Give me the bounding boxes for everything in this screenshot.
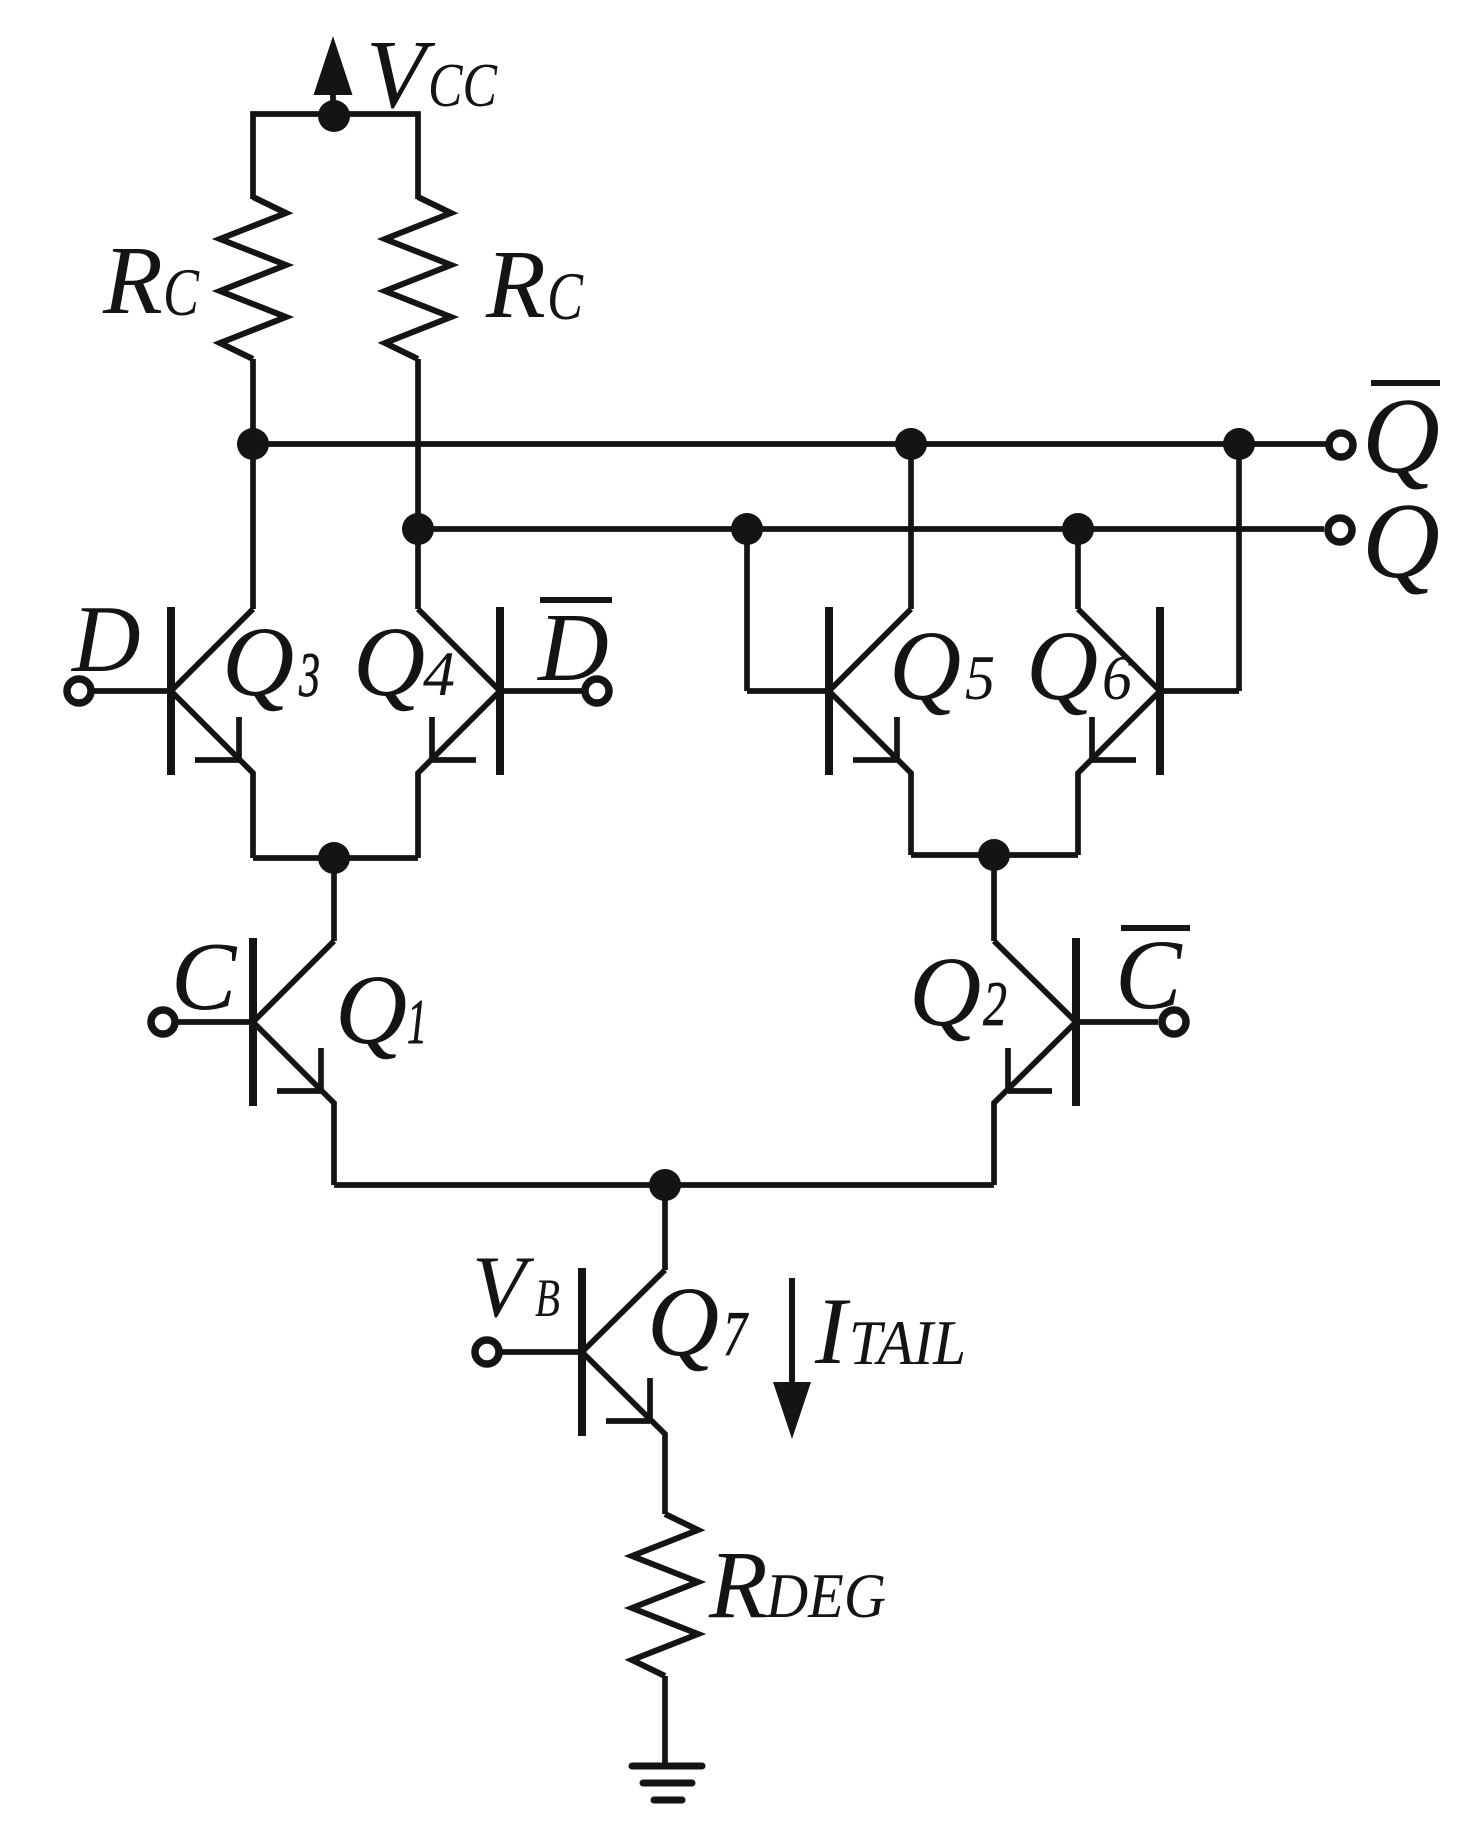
svg-text:CC: CC (428, 52, 498, 120)
svg-text:Q: Q (1362, 482, 1440, 601)
svg-text:R: R (485, 231, 546, 339)
svg-text:5: 5 (965, 642, 995, 713)
svg-text:TAIL: TAIL (849, 1307, 966, 1378)
svg-text:6: 6 (1102, 642, 1132, 713)
svg-text:D: D (536, 594, 609, 702)
svg-text:Q: Q (647, 1266, 719, 1377)
svg-text:Q: Q (1026, 610, 1098, 721)
svg-text:C: C (163, 254, 200, 330)
svg-text:Q: Q (1362, 377, 1440, 496)
svg-text:Q: Q (889, 610, 961, 721)
svg-text:Q: Q (909, 936, 981, 1047)
svg-text:Q: Q (353, 606, 425, 717)
svg-text:B: B (535, 1268, 560, 1328)
svg-text:I: I (814, 1278, 851, 1384)
svg-text:2: 2 (983, 968, 1007, 1039)
svg-text:Q: Q (222, 606, 294, 717)
svg-text:R: R (708, 1531, 768, 1638)
svg-text:4: 4 (423, 638, 455, 709)
svg-text:V: V (472, 1239, 535, 1336)
svg-text:R: R (102, 227, 163, 335)
svg-text:3: 3 (298, 639, 320, 710)
svg-text:7: 7 (723, 1298, 749, 1369)
svg-text:C: C (547, 258, 584, 334)
svg-text:C: C (171, 923, 238, 1031)
svg-text:C: C (1115, 919, 1183, 1030)
svg-text:1: 1 (407, 986, 427, 1057)
svg-text:V: V (366, 21, 436, 129)
svg-text:Q: Q (335, 954, 407, 1065)
svg-text:D: D (70, 586, 141, 692)
svg-text:DEG: DEG (765, 1560, 886, 1631)
